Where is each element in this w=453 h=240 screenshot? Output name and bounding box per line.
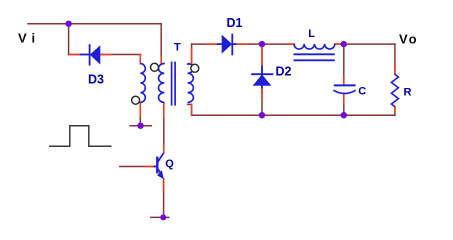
svg-text:T: T — [174, 42, 181, 54]
svg-text:o: o — [409, 32, 417, 47]
svg-text:C: C — [358, 86, 366, 98]
svg-text:D3: D3 — [88, 72, 104, 86]
svg-text:Q: Q — [165, 158, 174, 170]
svg-text:L: L — [308, 28, 315, 40]
svg-text:i: i — [32, 31, 36, 46]
svg-text:V: V — [18, 31, 27, 46]
svg-text:D1: D1 — [227, 16, 243, 30]
svg-text:V: V — [399, 32, 408, 47]
svg-text:D2: D2 — [276, 65, 292, 79]
svg-text:R: R — [404, 87, 412, 99]
